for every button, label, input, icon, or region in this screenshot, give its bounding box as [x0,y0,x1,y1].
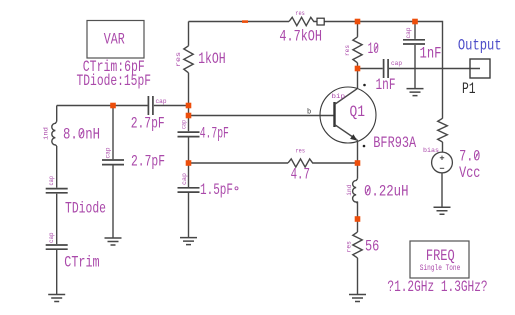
svg-text:res: res [344,45,351,56]
svg-text:1nF: 1nF [420,44,442,62]
ground emitter column [349,295,366,302]
source V Vcc circle [432,152,453,173]
inductor L 0.22uH [353,179,358,204]
transistor Q1 circle [320,87,376,143]
ground mid column [180,238,197,245]
node J6 [412,19,418,25]
ground 2.7pF shunt [105,238,122,245]
wire bias zigzag to source [442,142,444,152]
svg-text:Vcc: Vcc [459,164,480,182]
resistor R 4.7kOH [289,17,317,25]
node J8 [355,160,361,166]
svg-text:cap: cap [48,176,55,186]
svg-text:1.5pF: 1.5pF [200,181,233,199]
node top-rail joint marker [242,20,248,23]
label c dot [363,84,366,87]
transistor emitter diagonal [335,125,357,140]
svg-text:2.7pF: 2.7pF [131,153,165,171]
capacitor C 1nF shunt [403,40,425,44]
svg-text:TDiode: TDiode [65,200,106,218]
capacitor C 1nF series [384,59,389,78]
wire left column top [56,106,58,122]
svg-text:cap: cap [181,173,188,185]
svg-text:ind: ind [43,127,50,140]
wire 56 to ground [357,258,359,294]
node J1 [110,103,116,109]
label tuning dot after 1.5pF [235,187,238,190]
node J7 [355,66,361,72]
wire source to ground [441,173,443,207]
capacitor C 2.7pF shunt [102,160,124,165]
svg-text:56: 56 [365,238,379,256]
svg-text:b: b [307,108,311,116]
wire left column lower [56,194,58,244]
resistor R 10 [353,37,362,63]
svg-text:res: res [296,148,306,155]
svg-text:cap: cap [156,98,167,105]
FREQ block box [410,241,469,278]
wire inductor to junction [356,202,358,233]
transistor base bar [333,102,335,127]
wire output row [358,68,383,70]
VAR block box [87,21,144,59]
wire feedback row y=163 [189,162,289,164]
svg-text:CTrim: CTrim [64,254,99,272]
svg-text:VAR: VAR [104,30,125,48]
svg-text:10: 10 [368,40,379,58]
wire shunt 2.7pF branch [112,106,114,160]
svg-text:res: res [175,51,182,67]
transistor emitter arrow [350,134,357,140]
wire mid column [188,137,190,187]
svg-text:TDiode:15pF: TDiode:15pF [77,72,152,90]
svg-text:4.7kOH: 4.7kOH [279,28,322,46]
slashed zero in 10 [374,45,378,52]
svg-text:1kOH: 1kOH [198,50,226,68]
wire collector to transistor [357,63,359,89]
wire base column middle [188,73,190,131]
transistor collector diagonal [335,89,358,105]
wire shunt 1nF to ground [414,45,416,88]
slashed zero in 7.0 [475,152,479,159]
svg-text:4.7pF: 4.7pF [200,125,229,143]
wire left column bottom [56,250,58,294]
wire shunt 1nF branch [414,22,416,39]
capacitor C 1.5pF [178,188,200,192]
svg-text:2.7pF: 2.7pF [131,115,165,133]
svg-text:4.7: 4.7 [291,166,310,184]
svg-text:?1.2GHz 1.3GHz?: ?1.2GHz 1.3GHz? [387,278,487,296]
ground left column [48,295,65,302]
svg-text:cap: cap [48,232,55,243]
wire base column upper [188,22,190,46]
wire left column mid [56,146,58,188]
node J9 [355,216,361,222]
wire mid column to ground [188,193,190,237]
capacitor C 2.7pF series [148,96,153,115]
wire output row to port [389,68,480,70]
ground shunt 1nF [407,89,424,96]
wire collector top [357,22,359,37]
ground Vcc source [434,207,451,214]
svg-text:Single Tone: Single Tone [420,263,461,273]
svg-text:cap: cap [391,60,402,67]
capacitor C CTrim [46,245,68,249]
svg-text:ind: ind [346,184,353,195]
svg-text:res: res [345,241,352,253]
resistor R 56 [353,232,362,258]
svg-text:Output: Output [458,37,502,55]
svg-text:bip: bip [332,93,346,100]
source plus sign [440,156,444,160]
svg-text:0.22uH: 0.22uH [364,183,409,201]
resistor terminal box [317,18,324,25]
svg-text:Q1: Q1 [350,103,366,121]
svg-text:cap: cap [105,147,112,158]
resistor bias zigzag [438,118,448,142]
wire left horizontal y=105 [57,105,148,107]
capacitor C TDiode [46,189,68,193]
port P1 box [470,59,490,78]
wire emitter to inductor [357,163,359,179]
wire top rail left segment [189,21,290,23]
label e dot [363,145,366,148]
node J4 [186,160,192,166]
svg-text:P1: P1 [462,80,476,98]
node J5 [355,19,361,25]
source minus sign [440,167,444,169]
slashed zero in 8.0nH [80,130,84,137]
inductor L 8.0nH [52,122,57,147]
node J2 [186,103,192,109]
node J3 [186,113,192,119]
capacitor C 4.7pF [178,132,200,137]
svg-text:cap: cap [405,27,412,38]
wire base row [189,115,334,117]
resistor R 4.7 [288,159,358,167]
slashed zero in 0.22uH [366,187,370,194]
resistor R 1kOH [184,46,193,73]
wire emitter column [356,140,359,164]
svg-text:1nF: 1nF [376,76,396,94]
wire top rail right segment to Vcc corner [325,22,443,119]
svg-text:cap: cap [181,120,188,129]
svg-text:BFR93A: BFR93A [373,134,416,152]
wire shunt 2.7pF to ground [112,165,114,237]
svg-text:res: res [295,10,305,17]
